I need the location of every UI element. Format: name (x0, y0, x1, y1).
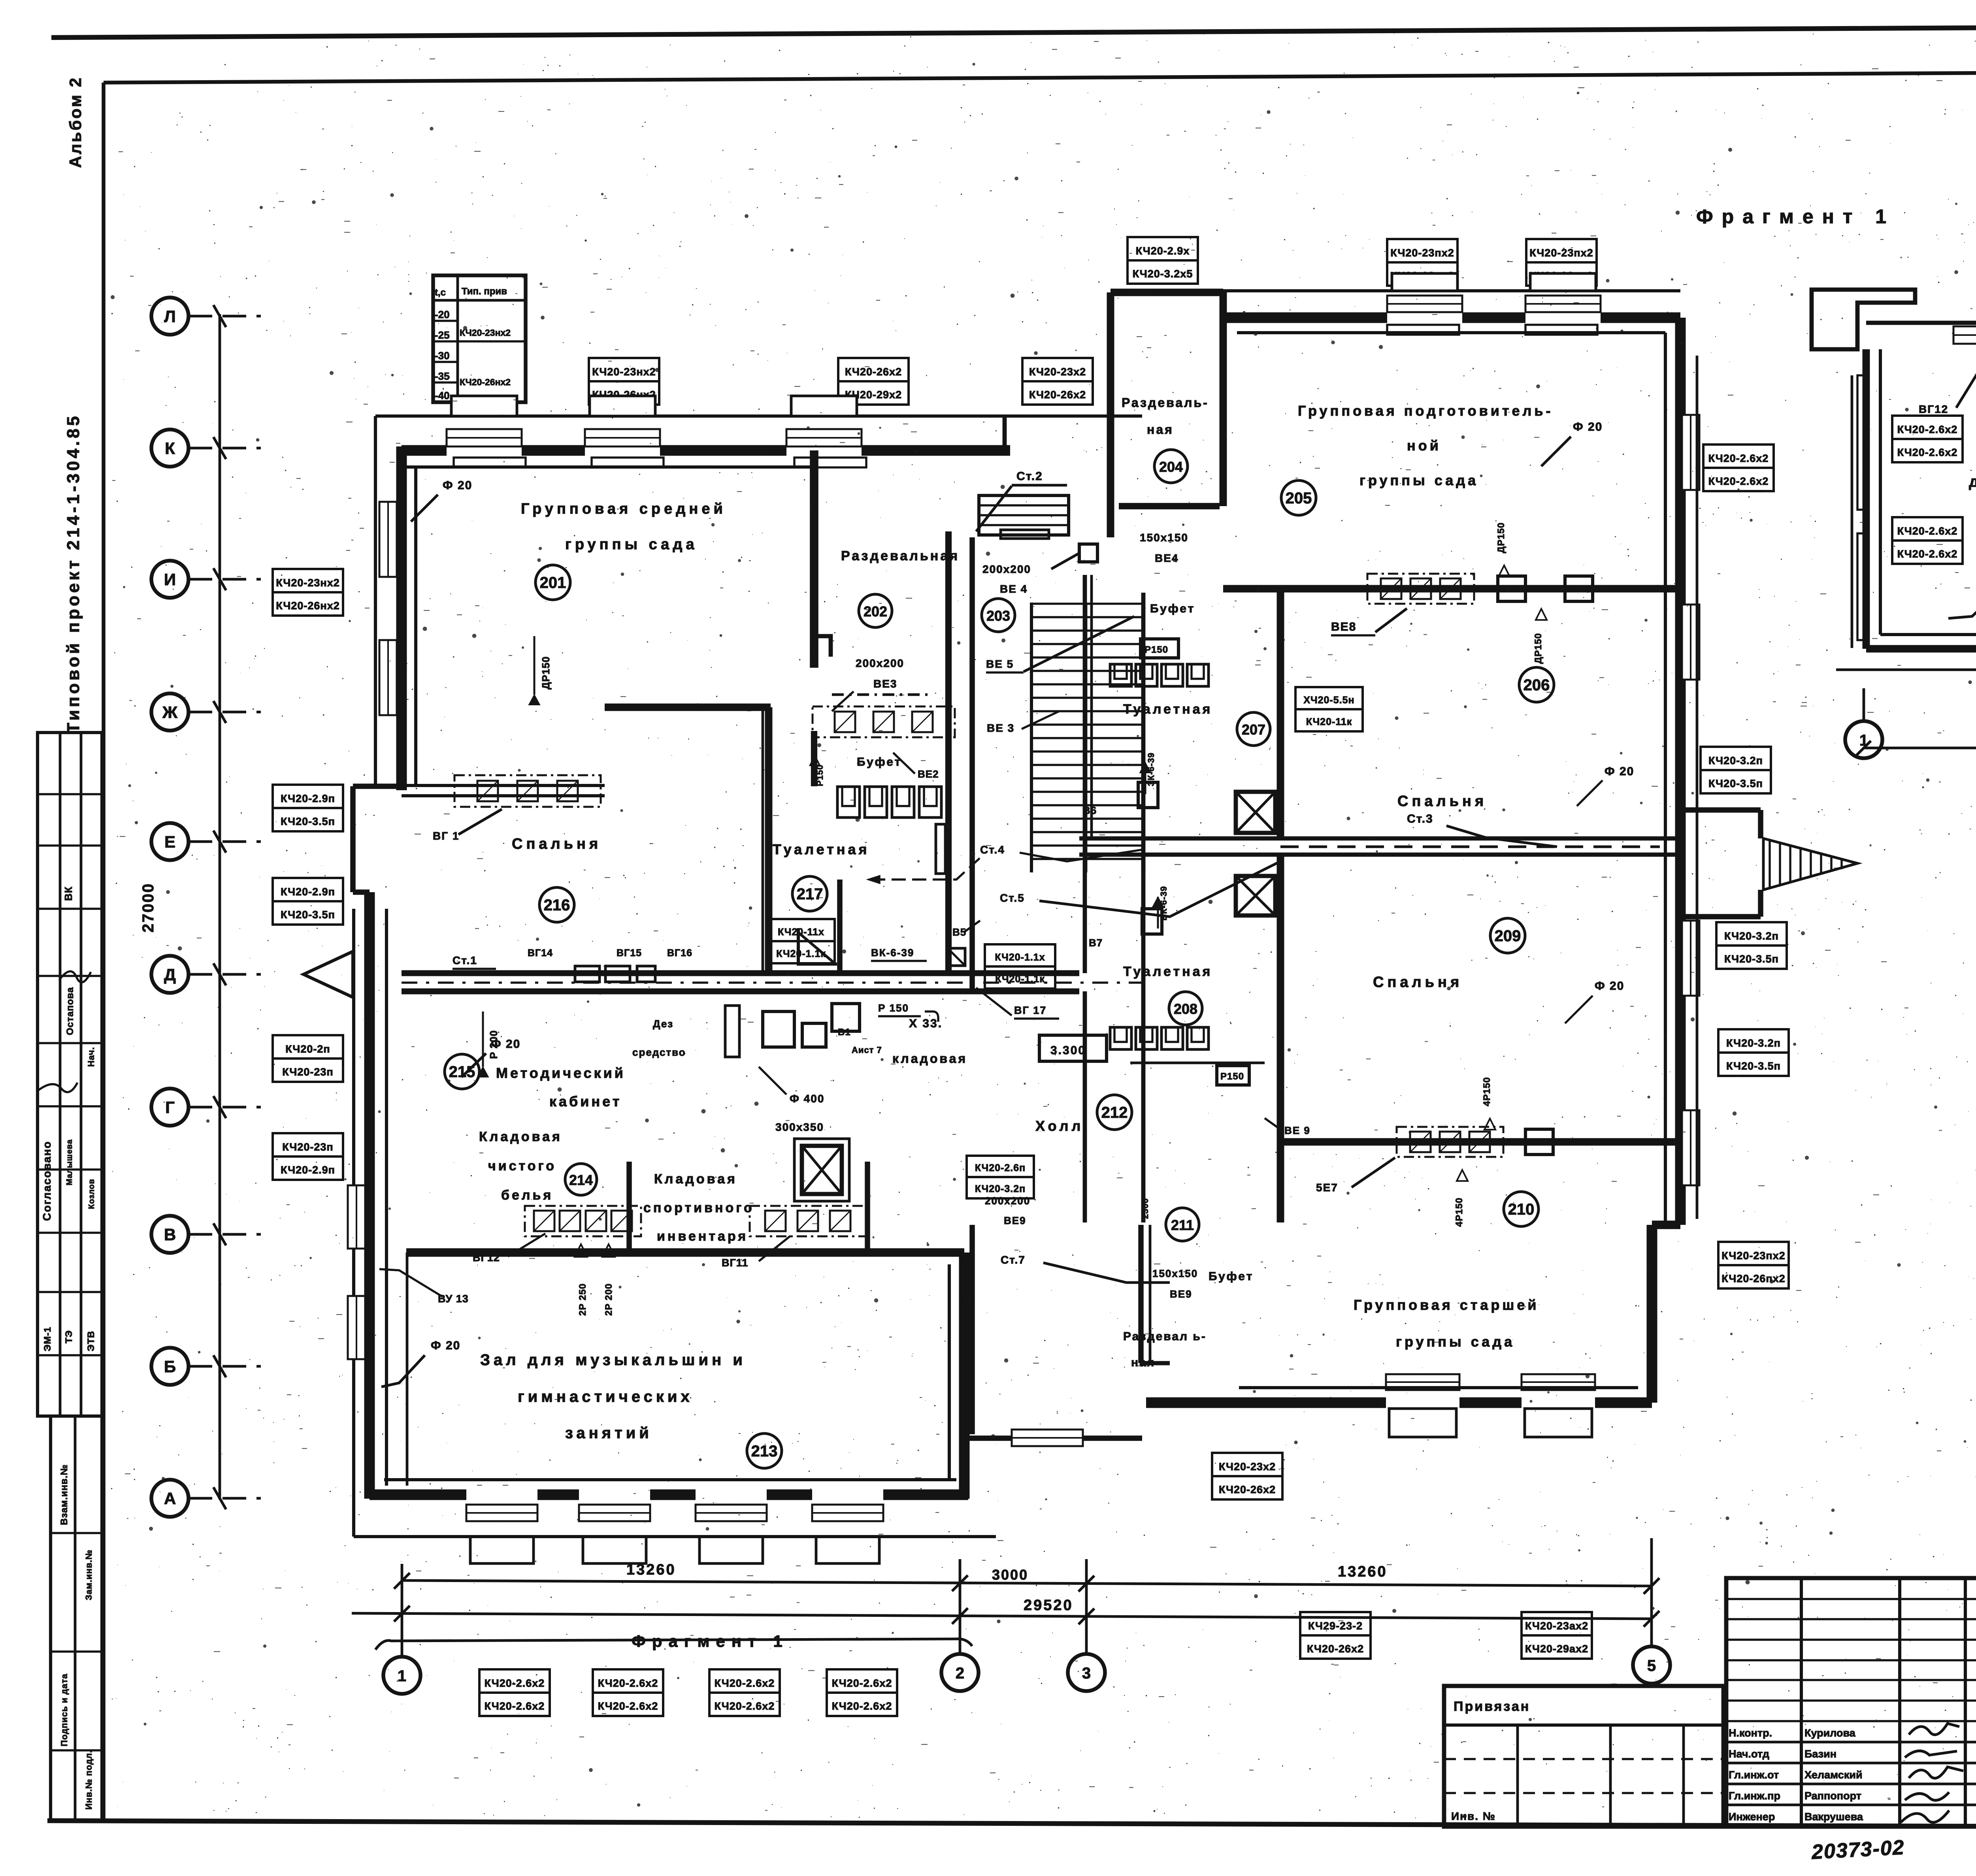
svg-text:Р150: Р150 (1144, 644, 1168, 655)
svg-text:КЧ20-23х2: КЧ20-23х2 (1219, 1461, 1276, 1473)
stamp near 211 (967, 1156, 1034, 1177)
svg-text:203: 203 (986, 608, 1010, 624)
svg-text:2: 2 (956, 1665, 964, 1682)
svg-text:ВЕ 4: ВЕ 4 (1000, 583, 1028, 595)
svg-text:кабинет: кабинет (549, 1093, 622, 1109)
stamp top 1 (589, 358, 659, 381)
svg-text:КЧ20-11х: КЧ20-11х (778, 927, 824, 938)
stamp right 3 (1716, 922, 1787, 946)
stamp bottom 6 (1522, 1612, 1592, 1635)
svg-text:Раздеваль-: Раздеваль- (1122, 396, 1209, 410)
right block right wall (1675, 318, 1686, 1225)
svg-text:5Е7: 5Е7 (1316, 1181, 1338, 1194)
vent unit left on hall wall (525, 1206, 641, 1236)
svg-text:ЭМ-1: ЭМ-1 (42, 1327, 53, 1351)
vertical wall 216/217 (765, 707, 773, 973)
svg-text:ВГ11: ВГ11 (722, 1257, 748, 1269)
elevation box 3.300 (1039, 1035, 1107, 1061)
svg-text:Групповая средней: Групповая средней (521, 501, 726, 517)
svg-text:4Р150: 4Р150 (1482, 1077, 1492, 1106)
svg-text:Туалетная: Туалетная (1123, 702, 1212, 717)
svg-text:ВГ12: ВГ12 (1919, 403, 1948, 415)
axis bubble Л (151, 298, 189, 335)
svg-text:Подпись и дата: Подпись и дата (59, 1674, 69, 1746)
wall 209/210 with vents (1280, 1138, 1680, 1146)
svg-text:211: 211 (1171, 1217, 1194, 1233)
hall bottom wall (370, 1490, 466, 1500)
axis bubble 2 bottom (941, 1654, 979, 1691)
fragment axis bubble 1 (1845, 721, 1882, 758)
svg-text:Зам.инв.№: Зам.инв.№ (84, 1550, 94, 1600)
svg-text:-35: -35 (435, 370, 450, 382)
svg-text:Аист 7: Аист 7 (852, 1045, 882, 1055)
svg-text:КЧ20-23нх2: КЧ20-23нх2 (592, 366, 656, 378)
svg-text:202: 202 (864, 603, 887, 620)
svg-text:Ф 20: Ф 20 (431, 1339, 460, 1352)
svg-text:КЧ20-3.5п: КЧ20-3.5п (281, 816, 335, 827)
axis bubble Б (151, 1348, 189, 1385)
svg-text:КЧ20-2.9х: КЧ20-2.9х (1136, 245, 1190, 257)
svg-text:КЧ29-23-2: КЧ29-23-2 (1308, 1620, 1363, 1632)
svg-text:201: 201 (540, 574, 566, 591)
room 217 partition and door (762, 707, 764, 973)
page frame top line inner (104, 70, 1976, 83)
wall 201/202 vertical (810, 450, 818, 668)
room circle 210 (1504, 1192, 1539, 1226)
svg-text:209: 209 (1495, 927, 1521, 945)
lower connector (room 211) (969, 1225, 975, 1434)
svg-text:Альбом 2: Альбом 2 (66, 76, 85, 168)
svg-text:27000: 27000 (140, 883, 157, 932)
svg-text:спортивного: спортивного (643, 1200, 754, 1215)
svg-text:Ф 20: Ф 20 (1595, 979, 1624, 993)
svg-text:-25: -25 (435, 329, 450, 341)
svg-text:29520: 29520 (1024, 1597, 1073, 1614)
svg-text:КЧ20-3.5п: КЧ20-3.5п (1726, 1060, 1781, 1072)
svg-text:Инженер: Инженер (1729, 1811, 1775, 1823)
svg-text:КЧ20-3.5п: КЧ20-3.5п (1724, 953, 1779, 965)
svg-text:Инв.№ подл.: Инв.№ подл. (84, 1750, 94, 1810)
svg-text:200х200: 200х200 (985, 1195, 1030, 1207)
svg-text:КЧ20-3.2п: КЧ20-3.2п (975, 1183, 1026, 1194)
svg-text:ВУ 13: ВУ 13 (438, 1293, 469, 1305)
svg-text:КЧ20-2.6х2: КЧ20-2.6х2 (832, 1700, 892, 1712)
svg-text:Дез: Дез (653, 1018, 673, 1030)
svg-text:для музыкальных и гим-: для музыкальных и гим- (1969, 473, 1976, 490)
svg-text:Базин: Базин (1804, 1748, 1836, 1760)
stamp bottom 4 (827, 1669, 897, 1693)
page frame top line outer (51, 25, 1976, 38)
svg-text:Кладовая: Кладовая (479, 1129, 562, 1144)
svg-text:инвентаря: инвентаря (657, 1229, 748, 1244)
stamp top 3 (1022, 358, 1093, 381)
lower-left windows (348, 1185, 365, 1249)
vent unit on wall 205-206 (1367, 574, 1474, 604)
room circle 208 (1169, 992, 1202, 1025)
svg-text:Д: Д (164, 965, 176, 984)
room circle 203 (982, 599, 1015, 632)
svg-text:КЧ20-2.6х2: КЧ20-2.6х2 (715, 1677, 775, 1689)
svg-text:200х200: 200х200 (982, 563, 1031, 575)
hall bottom outer thin line (354, 1535, 996, 1538)
stamp top 5 (1387, 239, 1457, 262)
svg-text:В: В (164, 1225, 176, 1244)
duct line along room 216 top (402, 784, 605, 787)
svg-text:ВГ12: ВГ12 (473, 1252, 500, 1264)
svg-text:средство: средство (632, 1046, 686, 1058)
lift shaft with X (802, 1146, 842, 1194)
stamp bottom 1 (479, 1669, 550, 1693)
room circle 215 (445, 1054, 479, 1089)
svg-text:КЧ20-29ах2: КЧ20-29ах2 (1525, 1643, 1588, 1655)
svg-text:215: 215 (449, 1063, 475, 1081)
wall 205/206 with vents (1223, 585, 1680, 593)
room circle 216 (539, 887, 574, 922)
svg-text:150х150: 150х150 (1152, 1268, 1198, 1279)
left margin table 1 (approvals) (38, 733, 102, 1416)
room circle 213 (747, 1433, 782, 1468)
svg-text:Вакрушева: Вакрушева (1804, 1811, 1863, 1823)
stamp bottom 5 (1300, 1612, 1371, 1635)
svg-text:Л: Л (164, 307, 175, 326)
right block bottom wall (1146, 1398, 1386, 1408)
svg-text:группы сада: группы сада (1396, 1334, 1515, 1350)
room circle 211 (1166, 1208, 1199, 1241)
svg-text:Туалетная: Туалетная (773, 841, 870, 857)
svg-text:ВГ 1: ВГ 1 (433, 830, 459, 842)
stamp KЧ20 left 5 (273, 1133, 343, 1156)
svg-text:В7: В7 (1089, 937, 1103, 949)
svg-text:ХЧ20-5.5н: ХЧ20-5.5н (1303, 695, 1354, 706)
svg-text:И: И (164, 570, 176, 589)
svg-text:210: 210 (1508, 1201, 1535, 1218)
room circle 202 (859, 594, 892, 627)
svg-text:200х200: 200х200 (856, 657, 904, 669)
X-shaft boxes (1236, 792, 1275, 833)
svg-text:t,с: t,с (435, 287, 446, 298)
stamp top 2 (838, 358, 909, 381)
svg-text:Ф 20: Ф 20 (491, 1038, 520, 1051)
fragment top wall (1866, 321, 1976, 325)
svg-text:Раздевал ь-: Раздевал ь- (1123, 1330, 1207, 1343)
heating riser St.4 (936, 824, 945, 874)
svg-text:ЭТВ: ЭТВ (86, 1331, 96, 1351)
svg-text:ная: ная (1131, 1356, 1155, 1369)
stamp right 4 (1718, 1029, 1789, 1053)
svg-text:КЧ20-2.6х2: КЧ20-2.6х2 (598, 1677, 658, 1689)
fragment inner faces (1879, 349, 1882, 635)
svg-text:Буфет: Буфет (1209, 1270, 1254, 1283)
svg-text:КЧ20-2.6х2: КЧ20-2.6х2 (1708, 452, 1769, 464)
left wall upper (396, 446, 407, 790)
svg-text:КЧ20-26нх2: КЧ20-26нх2 (276, 600, 340, 612)
svg-text:ВК: ВК (62, 886, 74, 901)
svg-text:КЧ20-23х2: КЧ20-23х2 (1029, 366, 1086, 378)
svg-text:ВЕ9: ВЕ9 (1004, 1215, 1026, 1226)
wall service column (1277, 592, 1284, 838)
small equipment boxes (763, 1011, 794, 1047)
stamp bottom-center (1212, 1453, 1282, 1476)
svg-text:ВЕ2: ВЕ2 (918, 768, 939, 780)
vertical axis dimension line 27000 (219, 314, 221, 1499)
room circle 205 (1281, 480, 1316, 515)
svg-text:КЧ20-2.9п: КЧ20-2.9п (281, 1164, 335, 1176)
svg-text:ДР150: ДР150 (540, 656, 552, 689)
vent unit wall 209-210 (1397, 1127, 1503, 1157)
stamp right 5 (1718, 1242, 1789, 1265)
entrance canopy triangle at axis Д (304, 951, 353, 997)
stamp KЧ20 left 1 (273, 569, 343, 592)
fragment left wall (1863, 349, 1870, 649)
svg-text:212: 212 (1101, 1104, 1128, 1121)
svg-text:КЧ20-2.6х2: КЧ20-2.6х2 (485, 1677, 545, 1689)
bottom dimension line 2 (352, 1613, 1652, 1619)
svg-text:КЧ20-2.6х2: КЧ20-2.6х2 (485, 1700, 545, 1712)
svg-text:Ст.7: Ст.7 (1001, 1254, 1026, 1266)
svg-text:Гл.инж.пр: Гл.инж.пр (1729, 1790, 1780, 1802)
svg-text:Р 150: Р 150 (878, 1002, 909, 1014)
stamp 5.5n (1295, 687, 1363, 709)
svg-text:300х350: 300х350 (775, 1121, 824, 1133)
page frame bottom border (47, 1821, 1976, 1828)
svg-text:кладовая: кладовая (892, 1051, 967, 1066)
svg-text:216: 216 (544, 897, 570, 914)
svg-text:КЧ20-23п: КЧ20-23п (282, 1141, 334, 1153)
corridor right block (1079, 836, 1680, 841)
personnel table (1726, 1578, 1976, 1827)
wall left of buffet column (969, 537, 975, 992)
svg-text:ВЕ 9: ВЕ 9 (1284, 1124, 1310, 1136)
svg-text:Малышева: Малышева (65, 1139, 74, 1185)
axis bubble Д (151, 956, 189, 993)
right block outer thin top (1111, 289, 1680, 292)
svg-text:Ф 20: Ф 20 (1605, 765, 1634, 778)
corridor walls left block (402, 970, 1079, 976)
svg-text:КЧ20-23пх2: КЧ20-23пх2 (1390, 247, 1454, 259)
svg-text:Ст.3: Ст.3 (1407, 812, 1433, 825)
svg-text:группы сада: группы сада (1359, 472, 1478, 488)
svg-text:Кладовая: Кладовая (654, 1172, 737, 1187)
hall right wall (959, 1253, 970, 1499)
svg-text:К: К (165, 439, 175, 458)
svg-text:КЧ20-2.6х2: КЧ20-2.6х2 (1897, 525, 1958, 537)
svg-text:Остапова: Остапова (65, 987, 75, 1035)
svg-text:1: 1 (398, 1667, 406, 1685)
svg-text:ВЕ3: ВЕ3 (873, 678, 897, 690)
svg-text:13260: 13260 (626, 1561, 676, 1578)
fragment stamp 2 (1892, 517, 1963, 541)
service column verticals (1083, 575, 1087, 973)
svg-text:КЧ20-26х2: КЧ20-26х2 (1307, 1643, 1364, 1655)
svg-text:Фрагмент 1: Фрагмент 1 (1696, 205, 1895, 228)
room circle 206 (1519, 667, 1554, 702)
svg-text:ВГ16: ВГ16 (667, 947, 692, 959)
svg-text:ВЕ9: ВЕ9 (1170, 1288, 1192, 1300)
svg-text:Раздевальная: Раздевальная (841, 548, 960, 563)
inner face lines left block (402, 465, 810, 469)
axis bubble К (151, 429, 189, 467)
right entry porch + wedge stair (1680, 807, 1761, 813)
svg-text:Фрагмент 1: Фрагмент 1 (632, 1632, 789, 1650)
fragment dimension line (1864, 747, 1976, 750)
stamp 11x (767, 919, 835, 941)
svg-text:КЧ20-3.5п: КЧ20-3.5п (281, 909, 335, 921)
svg-text:150х150: 150х150 (1140, 531, 1188, 544)
svg-text:ВГ15: ВГ15 (617, 947, 642, 959)
room circle 207 (1237, 712, 1270, 746)
svg-text:Ф 20: Ф 20 (1573, 420, 1603, 433)
svg-text:КЧ20-26х2: КЧ20-26х2 (1029, 389, 1086, 401)
svg-text:Раппопорт: Раппопорт (1804, 1790, 1861, 1802)
hall bottom windows (466, 1505, 537, 1521)
room circle 209 (1490, 918, 1525, 953)
svg-text:КЧ20-2.6х2: КЧ20-2.6х2 (832, 1677, 892, 1689)
svg-text:Ст.5: Ст.5 (1000, 892, 1025, 904)
room circle 217 (792, 876, 827, 911)
svg-text:Привязан: Привязан (1454, 1699, 1530, 1714)
fragment stamp 1 (1892, 416, 1963, 439)
svg-text:КЧ20-1.1к: КЧ20-1.1к (995, 974, 1045, 985)
svg-text:КЧ20-3.2х5: КЧ20-3.2х5 (1133, 268, 1193, 280)
radiators below top wall (454, 458, 526, 467)
svg-text:гимнастических: гимнастических (518, 1388, 693, 1405)
svg-text:Туалетная: Туалетная (1123, 964, 1212, 979)
svg-text:Нач.: Нач. (86, 1047, 96, 1067)
svg-text:КЧ20-23ах2: КЧ20-23ах2 (1525, 1620, 1588, 1632)
axis bubble А (151, 1480, 189, 1517)
vent unit VG1 in room 201 (454, 775, 601, 807)
svg-text:20373-02: 20373-02 (1811, 1836, 1905, 1864)
svg-text:Нач.отд: Нач.отд (1729, 1748, 1769, 1760)
svg-text:Групповая старшей: Групповая старшей (1354, 1297, 1539, 1313)
left block top wall (402, 445, 447, 456)
right block top wall (1223, 313, 1387, 323)
svg-text:КЧ20-26пх2: КЧ20-26пх2 (1721, 1273, 1786, 1285)
svg-text:ВЕ4: ВЕ4 (1155, 552, 1178, 564)
axis bubble 3 bottom (1068, 1654, 1105, 1691)
svg-text:ДР150: ДР150 (1496, 522, 1507, 553)
axis bubble 1 bottom (383, 1657, 420, 1694)
svg-text:КЧ20-26х2: КЧ20-26х2 (845, 366, 902, 378)
svg-text:КЧ20-26х2: КЧ20-26х2 (1219, 1484, 1276, 1496)
svg-text:Ж: Ж (162, 703, 178, 721)
svg-text:Спальня: Спальня (1397, 793, 1487, 810)
left wall lower (364, 892, 375, 1499)
stamp 1.1x (985, 944, 1055, 966)
corridor vent boxes (575, 966, 600, 982)
svg-text:ДР150: ДР150 (1533, 633, 1544, 664)
room circle 201 (535, 565, 570, 600)
page frame left border (102, 83, 106, 1822)
svg-text:Методический: Методический (496, 1065, 626, 1081)
svg-text:-30: -30 (435, 350, 450, 362)
inner face lines right block (1237, 331, 1665, 334)
svg-text:Буфет: Буфет (1150, 602, 1195, 615)
svg-text:Спальня: Спальня (512, 836, 601, 852)
stamp KЧ20 left 3 (273, 878, 343, 901)
svg-text:ВЕ 3: ВЕ 3 (987, 722, 1014, 734)
svg-text:Согласовано: Согласовано (41, 1141, 53, 1221)
wall 202/203 (945, 531, 952, 973)
stamp KЧ20 left 2 (273, 785, 343, 808)
svg-text:КЧ20-1.1к: КЧ20-1.1к (776, 948, 826, 959)
svg-text:КЧ20-23пх2: КЧ20-23пх2 (1529, 247, 1593, 259)
svg-text:КЧ20-23п: КЧ20-23п (282, 1066, 334, 1078)
svg-text:5: 5 (1647, 1657, 1656, 1674)
svg-text:Инв. №: Инв. № (1451, 1810, 1496, 1822)
svg-text:3: 3 (1082, 1665, 1091, 1682)
axis bubble 5 bottom (1633, 1646, 1670, 1684)
svg-text:Групповая подготовитель-: Групповая подготовитель- (1298, 403, 1554, 419)
svg-text:ной: ной (1407, 437, 1441, 454)
svg-text:КЧ20-3.5п: КЧ20-3.5п (1708, 778, 1763, 789)
svg-text:КЧ20-2.6х2: КЧ20-2.6х2 (1897, 548, 1958, 560)
svg-text:Козлов: Козлов (87, 1179, 96, 1209)
svg-text:Ст.2: Ст.2 (1016, 470, 1043, 483)
signature squiggles (59, 971, 91, 982)
svg-text:Н.контр.: Н.контр. (1729, 1727, 1772, 1739)
svg-text:КЧ20-3.2п: КЧ20-3.2п (1726, 1037, 1781, 1049)
fragment L-step wall (1812, 290, 1915, 349)
svg-text:206: 206 (1523, 676, 1550, 694)
top wall windows (447, 429, 522, 446)
bottom dimension line 1 (402, 1580, 1652, 1586)
left margin table 2 (inventory) (51, 1416, 102, 1821)
vent unit right on hall wall (750, 1206, 866, 1236)
svg-text:КЧ20-2.6х2: КЧ20-2.6х2 (598, 1700, 658, 1712)
svg-text:ВК-6-39: ВК-6-39 (871, 947, 914, 959)
stamp KЧ20 left 4 (273, 1035, 343, 1059)
svg-text:Гл.инж.от: Гл.инж.от (1729, 1769, 1779, 1781)
connector top walls (1107, 292, 1114, 537)
svg-text:2Р 200: 2Р 200 (603, 1283, 614, 1316)
svg-text:Ф 400: Ф 400 (790, 1092, 824, 1105)
svg-text:чистого: чистого (488, 1158, 556, 1173)
buffet vent unit (813, 706, 955, 737)
svg-text:205: 205 (1286, 490, 1312, 507)
svg-text:КЧ20-11к: КЧ20-11к (1306, 716, 1352, 727)
signatures in table (1909, 1723, 1959, 1735)
svg-text:217: 217 (797, 885, 823, 903)
porch walls and entry stair St.2 (1003, 416, 1007, 450)
svg-text:ная: ная (1147, 422, 1174, 437)
fragment bottom wall (1866, 645, 1976, 653)
svg-text:КЧ20-1.1х: КЧ20-1.1х (995, 952, 1045, 963)
svg-text:Ст.4: Ст.4 (980, 844, 1005, 856)
svg-text:КЧ20-2.6х2: КЧ20-2.6х2 (1897, 424, 1958, 435)
stamp bottom 2 (593, 1669, 663, 1693)
axis bubble Г (151, 1089, 189, 1126)
svg-text:13260: 13260 (1338, 1563, 1388, 1580)
svg-text:204: 204 (1159, 459, 1183, 475)
bottom axis verticals (401, 1564, 403, 1657)
svg-text:КЧ20-2.6х2: КЧ20-2.6х2 (1897, 446, 1958, 458)
room circle 212 (1097, 1095, 1132, 1130)
svg-text:213: 213 (751, 1443, 778, 1460)
privyazan box (1444, 1686, 1723, 1827)
axis bubble В (151, 1216, 189, 1253)
svg-text:группы сада: группы сада (565, 536, 698, 553)
svg-text:ВГ 17: ВГ 17 (1014, 1004, 1046, 1016)
svg-text:КЧ20-3.2п: КЧ20-3.2п (1724, 930, 1779, 942)
svg-text:В1: В1 (838, 1027, 851, 1038)
svg-text:4Р150: 4Р150 (1454, 1198, 1465, 1227)
svg-text:Буфет: Буфет (857, 755, 902, 768)
svg-text:КЧ20-2п: КЧ20-2п (285, 1043, 330, 1055)
room circle 214 (565, 1164, 597, 1195)
stamp right 2 (1701, 747, 1771, 770)
svg-text:КЧ20-3.2п: КЧ20-3.2п (1708, 755, 1763, 767)
